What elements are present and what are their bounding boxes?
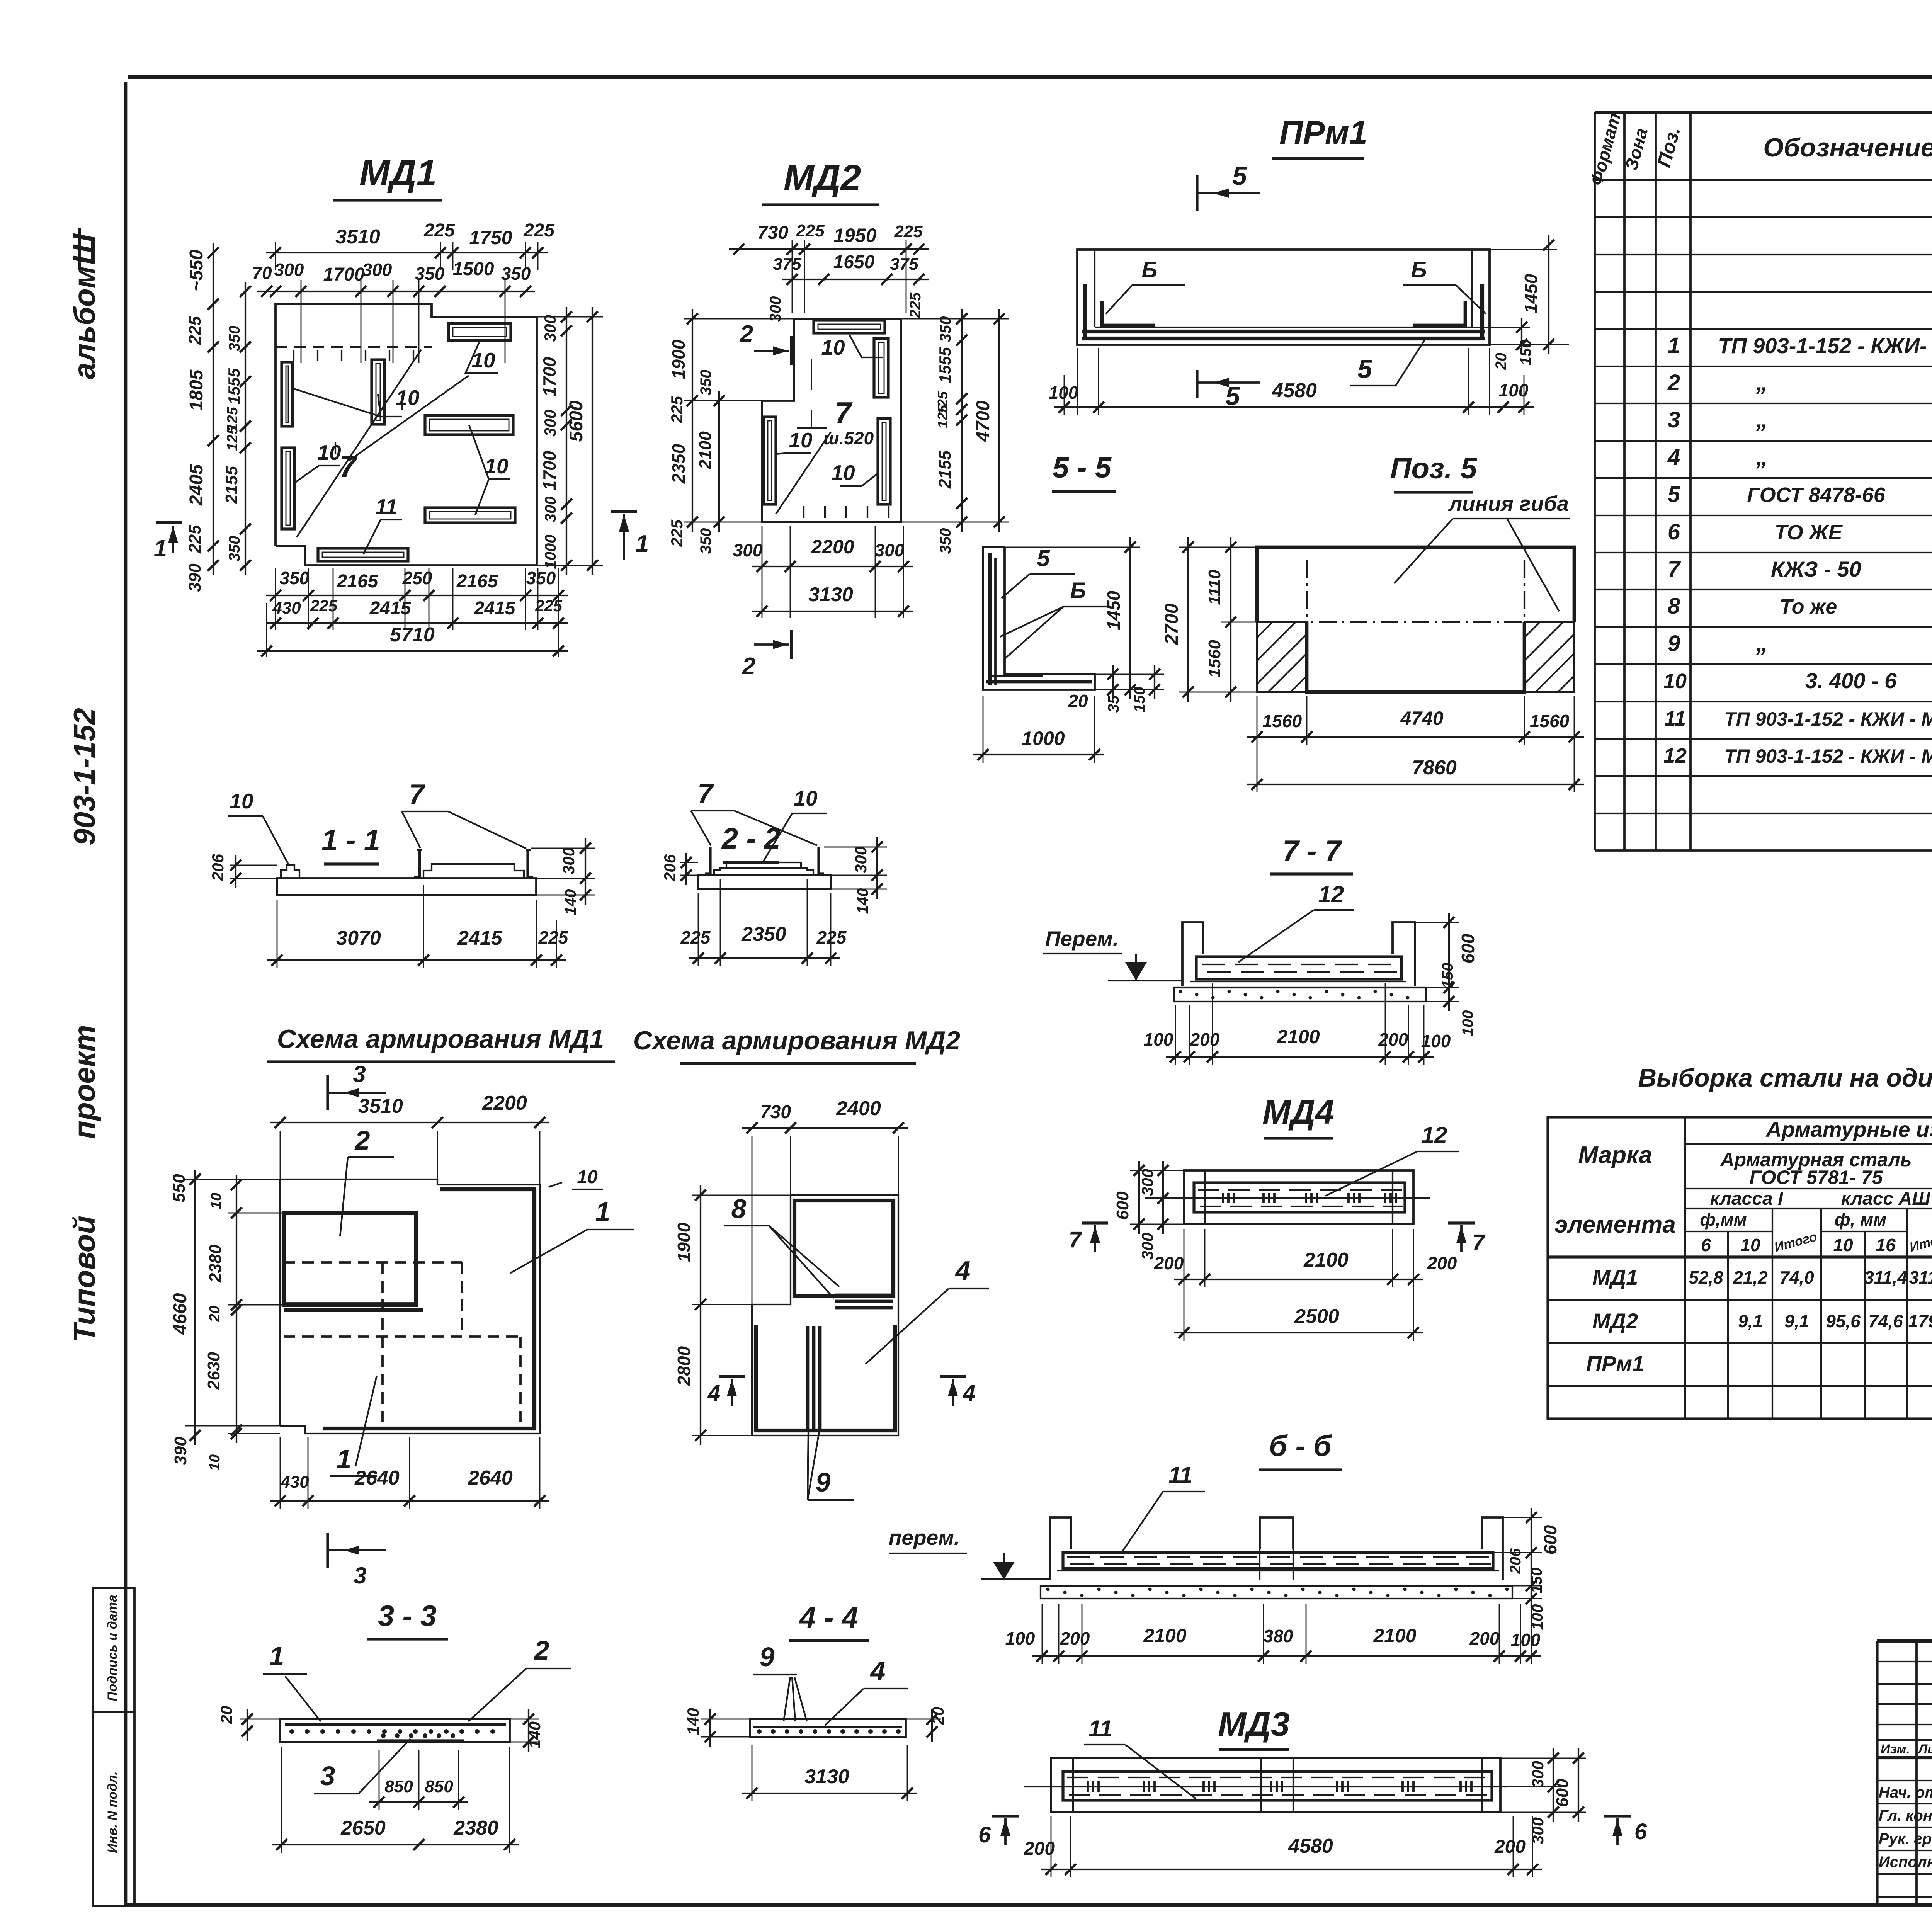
view МД4 bottom dims 200/2100/200 xyxy=(1174,1279,1423,1280)
svg-text:350: 350 xyxy=(937,316,954,342)
scheme МД1 section mark 3 top xyxy=(326,1075,329,1110)
scheme МД1 dashed lines xyxy=(284,1261,462,1264)
svg-text:3510: 3510 xyxy=(335,226,380,248)
svg-text:52,8: 52,8 xyxy=(1689,1267,1723,1287)
svg-text:„: „ xyxy=(1756,630,1768,656)
svg-text:Итого: Итого xyxy=(1908,1229,1932,1255)
svg-text:1: 1 xyxy=(269,1641,284,1671)
view 7-7 bottom dims 100/200/2100/200/100 xyxy=(1166,1056,1434,1058)
svg-text:4740: 4740 xyxy=(1400,707,1443,729)
svg-text:8: 8 xyxy=(731,1194,747,1224)
view 1-1 left embed block xyxy=(281,865,299,878)
svg-text:2640: 2640 xyxy=(354,1467,400,1489)
svg-text:2165: 2165 xyxy=(337,571,379,592)
view МД2 leader label 10 right xyxy=(840,473,878,486)
svg-text:5: 5 xyxy=(1668,482,1680,507)
view МД4 outline xyxy=(1184,1170,1413,1224)
svg-text:ф,мм: ф,мм xyxy=(1700,1209,1747,1230)
svg-text:Обозначение: Обозначение xyxy=(1763,133,1932,162)
view 3-3 dims 850 850 xyxy=(369,1801,468,1803)
svg-text:1555: 1555 xyxy=(936,347,954,383)
svg-text:5: 5 xyxy=(1037,545,1050,571)
svg-text:Б: Б xyxy=(1411,257,1427,282)
svg-text:350: 350 xyxy=(226,536,243,562)
svg-text:3: 3 xyxy=(354,1563,366,1588)
svg-text:Поз. 5: Поз. 5 xyxy=(1390,452,1478,485)
view 5-5 right dimension 1450 xyxy=(1129,537,1131,699)
svg-text:7860: 7860 xyxy=(1412,757,1457,779)
svg-text:4: 4 xyxy=(955,1255,971,1286)
view МД1 leader label 10 right pair xyxy=(469,425,510,479)
view МД1 left dimension column outer xyxy=(213,243,214,575)
svg-text:225: 225 xyxy=(538,927,569,947)
scheme МД2 rebar 8 triple horizontal xyxy=(835,1294,893,1297)
svg-text:3130: 3130 xyxy=(804,1765,849,1788)
scheme МД2 left dims 1900/2800 xyxy=(700,1185,701,1445)
svg-text:10: 10 xyxy=(821,335,845,359)
svg-text:7: 7 xyxy=(697,778,714,809)
svg-text:850: 850 xyxy=(425,1777,453,1796)
view 7-7 left wall xyxy=(1182,922,1203,986)
svg-text:6: 6 xyxy=(978,1822,991,1847)
view МД1 outline xyxy=(276,304,537,565)
view Поз.5 left dimensions 1110/1560 xyxy=(1230,537,1231,702)
svg-text:350: 350 xyxy=(697,370,714,396)
svg-text:2100: 2100 xyxy=(1373,1625,1416,1646)
svg-text:Итого: Итого xyxy=(1773,1229,1819,1255)
svg-text:ПРм1: ПРм1 xyxy=(1586,1351,1644,1376)
view МД3 beam center line and rebar ticks xyxy=(1024,1786,1507,1787)
svg-text:5600: 5600 xyxy=(566,400,587,442)
view МД1 leader label 7 diagonals xyxy=(297,350,421,537)
view 7-7 steel beam 12 xyxy=(1196,957,1401,979)
svg-text:10: 10 xyxy=(207,1454,223,1471)
view 6-6 bottom dims 100/200/2100/380/2100/200/100 xyxy=(1032,1655,1541,1657)
svg-text:300: 300 xyxy=(542,497,559,522)
svg-text:350: 350 xyxy=(526,568,556,588)
svg-text:10: 10 xyxy=(471,348,495,372)
scheme МД2 outline xyxy=(752,1195,898,1435)
svg-text:225: 225 xyxy=(680,927,711,947)
svg-text:7: 7 xyxy=(835,396,853,430)
svg-text:б - б: б - б xyxy=(1269,1430,1332,1463)
svg-text:140: 140 xyxy=(562,889,579,915)
view ПРм1 section mark 5 top xyxy=(1196,175,1198,211)
view МД2 leader label 10 top xyxy=(849,335,883,357)
svg-text:Изм.: Изм. xyxy=(1881,1742,1910,1757)
svg-text:Инв. N подл.: Инв. N подл. xyxy=(105,1771,120,1853)
view МД1 top dimension row 3510/225/1750/225 xyxy=(266,252,548,253)
scheme МД1 section mark 3 bottom xyxy=(326,1533,329,1568)
svg-text:Гл. констр: Гл. констр xyxy=(1879,1807,1932,1824)
scheme МД1 left dims inner xyxy=(236,1175,237,1443)
svg-text:альбом: альбом xyxy=(67,266,101,379)
svg-text:Ш: Ш xyxy=(66,233,102,265)
svg-text:2350: 2350 xyxy=(741,923,786,946)
view МД2 outline xyxy=(762,319,901,522)
view МД2 bottom dimension 3130 xyxy=(752,611,913,612)
svg-text:7: 7 xyxy=(1668,556,1681,582)
view 7-7 right dims 600/150/100 xyxy=(1448,913,1450,1011)
svg-text:Типовой: Типовой xyxy=(67,1216,101,1342)
svg-text:300: 300 xyxy=(541,315,559,342)
svg-text:20: 20 xyxy=(207,1306,223,1322)
svg-text:Формат: Формат xyxy=(1586,111,1625,187)
svg-text:Подпись и дата: Подпись и дата xyxy=(105,1595,120,1701)
svg-text:Б: Б xyxy=(1070,578,1086,603)
svg-text:9: 9 xyxy=(760,1642,775,1672)
svg-text:1700: 1700 xyxy=(323,264,365,285)
view МД4 left dims 300/600/300 xyxy=(1162,1161,1164,1234)
svg-text:10: 10 xyxy=(230,789,253,813)
view МД4 section mark 7 left xyxy=(1082,1221,1108,1224)
svg-text:225: 225 xyxy=(796,221,825,240)
view МД1 leader label 11 xyxy=(363,520,402,554)
svg-text:4: 4 xyxy=(870,1656,886,1686)
view 7-7 right wall xyxy=(1393,922,1415,986)
view 3-3 top rebar with dots xyxy=(285,1723,506,1726)
svg-text:100: 100 xyxy=(1005,1628,1035,1648)
svg-text:74,0: 74,0 xyxy=(1779,1267,1814,1287)
svg-text:1: 1 xyxy=(337,1444,352,1474)
svg-text:МД2: МД2 xyxy=(1592,1309,1638,1333)
svg-text:ТП 903-1-152 - КЖИ - МС4: ТП 903-1-152 - КЖИ - МС4 xyxy=(1724,708,1932,730)
view Поз.5 hatched corner left xyxy=(1257,622,1307,692)
svg-text:10: 10 xyxy=(208,1193,224,1209)
svg-text:1110: 1110 xyxy=(1205,570,1224,605)
view МД2 right dimension column inner xyxy=(961,309,963,532)
svg-text:7: 7 xyxy=(1472,1230,1486,1255)
view МД2 top dimension row 730/225/1950/225 xyxy=(729,248,929,250)
svg-text:1: 1 xyxy=(154,535,167,562)
svg-text:1900: 1900 xyxy=(668,339,689,379)
svg-text:100: 100 xyxy=(1459,1010,1476,1036)
svg-text:1: 1 xyxy=(636,531,649,557)
scheme МД1 left dims outer xyxy=(194,1170,196,1445)
view МД1 leader label 10 top-right xyxy=(466,342,498,373)
svg-text:20: 20 xyxy=(217,1706,235,1725)
svg-text:4580: 4580 xyxy=(1272,379,1317,402)
svg-text:Выборка стали на один элемен: Выборка стали на один элемент, кг. xyxy=(1638,1063,1932,1092)
view МД2 embed slot top xyxy=(814,320,885,333)
svg-text:1 - 1: 1 - 1 xyxy=(321,824,380,857)
svg-text:3: 3 xyxy=(353,1061,366,1087)
svg-text:12: 12 xyxy=(1663,744,1687,767)
svg-text:311,4: 311,4 xyxy=(1864,1267,1907,1287)
svg-text:2415: 2415 xyxy=(474,598,516,619)
svg-text:2: 2 xyxy=(1667,370,1680,395)
svg-text:2: 2 xyxy=(354,1125,370,1155)
view 6-6 middle wall xyxy=(1260,1517,1293,1549)
view 3-3 dims 2650 2380 xyxy=(272,1844,519,1845)
svg-text:20: 20 xyxy=(1493,353,1510,371)
svg-text:Перем.: Перем. xyxy=(1045,927,1119,951)
view МД3 section mark 6 right xyxy=(1604,1815,1631,1817)
svg-text:550: 550 xyxy=(170,1174,189,1202)
svg-text:225: 225 xyxy=(185,316,204,345)
view МД1 right dimension column 5600 xyxy=(592,307,593,575)
svg-text:100: 100 xyxy=(1511,1630,1541,1650)
svg-text:МД1: МД1 xyxy=(359,153,437,194)
svg-text:3510: 3510 xyxy=(358,1095,403,1117)
svg-text:250: 250 xyxy=(402,568,432,588)
view 2-2 bottom dims 225/2350/225 xyxy=(689,957,840,959)
view 1-1 right dims 300/140 xyxy=(585,838,586,905)
svg-text:2: 2 xyxy=(534,1635,549,1665)
svg-text:730: 730 xyxy=(757,223,788,243)
svg-text:150: 150 xyxy=(1131,687,1148,713)
view 6-6 right wall xyxy=(1482,1517,1503,1580)
svg-text:200: 200 xyxy=(1154,1253,1184,1273)
svg-text:150: 150 xyxy=(1439,963,1456,989)
view 6-6 steel beam 11 xyxy=(1063,1553,1493,1568)
view Поз.5 plate outline xyxy=(1257,547,1574,622)
svg-text:100: 100 xyxy=(1049,383,1078,403)
svg-text:850: 850 xyxy=(384,1777,413,1796)
svg-text:3. 400 - 6: 3. 400 - 6 xyxy=(1805,668,1897,693)
view МД1 embed slot 10 right-bottom xyxy=(425,508,515,523)
view МД1 embed slot 10 mid-top xyxy=(372,360,384,424)
svg-text:11: 11 xyxy=(1088,1716,1112,1742)
view 6-6 concrete pad xyxy=(1041,1586,1512,1599)
scheme МД2 section mark 4 left xyxy=(719,1375,745,1378)
svg-text:4: 4 xyxy=(963,1381,975,1406)
svg-text:ТП 903-1-152 - КЖИ- С5: ТП 903-1-152 - КЖИ- С5 xyxy=(1718,333,1932,358)
svg-text:9: 9 xyxy=(1668,631,1680,656)
svg-text:2200: 2200 xyxy=(482,1092,527,1114)
view МД1 section mark 1 left xyxy=(156,521,182,524)
svg-text:Арматурные изделия: Арматурные изделия xyxy=(1765,1117,1932,1141)
svg-text:1900: 1900 xyxy=(674,1222,694,1262)
view МД3 right dims 300/600/300 xyxy=(1553,1748,1554,1822)
svg-text:350: 350 xyxy=(937,528,954,554)
svg-text:300: 300 xyxy=(560,847,578,874)
svg-text:ТП 903-1-152 - КЖИ - МС5: ТП 903-1-152 - КЖИ - МС5 xyxy=(1724,745,1932,767)
svg-text:10: 10 xyxy=(1740,1235,1760,1255)
svg-text:140: 140 xyxy=(684,1708,702,1735)
view МД2 embed slot left xyxy=(764,417,776,504)
svg-text:5710: 5710 xyxy=(390,624,435,646)
svg-text:200: 200 xyxy=(1024,1838,1055,1859)
view МД3 bottom dims 200/4580/200 xyxy=(1041,1869,1542,1870)
view 3-3 lower mesh 3 with dots xyxy=(377,1739,464,1742)
svg-text:5: 5 xyxy=(1357,354,1372,384)
svg-text:2100: 2100 xyxy=(1276,1026,1320,1048)
svg-text:Марка: Марка xyxy=(1578,1142,1652,1168)
svg-text:11: 11 xyxy=(1168,1462,1192,1488)
svg-text:125: 125 xyxy=(935,405,951,428)
scheme МД2 top dims 730/2400 xyxy=(742,1127,908,1129)
view МД2 embed slot right-lower xyxy=(878,418,890,504)
title block left grid xyxy=(1915,1641,1918,1905)
svg-text:10: 10 xyxy=(577,1167,598,1187)
svg-text:10: 10 xyxy=(317,440,341,464)
view 5-5 angle outline xyxy=(983,547,1095,690)
svg-text:74,6: 74,6 xyxy=(1868,1311,1903,1331)
svg-text:1000: 1000 xyxy=(542,535,559,569)
view 5-5 rebar lines xyxy=(988,553,992,685)
view МД1 embed slot 10 right-top xyxy=(449,323,511,340)
svg-text:225: 225 xyxy=(668,519,686,547)
svg-text:140: 140 xyxy=(854,888,871,914)
svg-text:2165: 2165 xyxy=(456,571,498,592)
view 5-5 bottom dimension 1000 xyxy=(973,754,1104,755)
svg-text:1560: 1560 xyxy=(1205,640,1224,678)
svg-text:2155: 2155 xyxy=(222,466,241,504)
view 2-2 raised plate xyxy=(714,868,813,875)
view Поз.5 bend lines dash-dot xyxy=(1257,621,1574,623)
view МД2 leader label 10 left xyxy=(776,453,811,454)
svg-text:3070: 3070 xyxy=(336,927,381,949)
svg-text:2400: 2400 xyxy=(836,1097,881,1120)
view Поз.5 bottom dimensions 1560/4740/1560 xyxy=(1247,736,1584,738)
svg-text:ГОСТ 8478-66: ГОСТ 8478-66 xyxy=(1747,483,1886,507)
scheme МД2 mesh thick bottom outline xyxy=(756,1325,895,1430)
svg-text:225: 225 xyxy=(523,220,555,241)
svg-text:1560: 1560 xyxy=(1530,711,1570,731)
view 1-1 raised plate xyxy=(423,864,524,878)
view МД1 section mark 1 right xyxy=(611,510,637,513)
svg-text:100: 100 xyxy=(1421,1031,1451,1051)
svg-text:903-1-152: 903-1-152 xyxy=(67,708,101,845)
svg-text:То же: То же xyxy=(1780,595,1837,618)
view МД2 section mark 2 top xyxy=(790,336,793,365)
svg-text:179,3: 179,3 xyxy=(1908,1311,1932,1331)
view 5-5 dims 20/35/150 xyxy=(1112,665,1114,699)
svg-text:МД2: МД2 xyxy=(784,157,861,198)
svg-text:150: 150 xyxy=(1517,340,1534,366)
svg-text:350: 350 xyxy=(226,326,243,352)
margin box Инв N подл / Подпись и дата xyxy=(93,1588,134,1906)
svg-text:9,1: 9,1 xyxy=(1738,1311,1763,1331)
scheme МД1 mesh C2 thick rect xyxy=(284,1213,416,1305)
svg-text:2800: 2800 xyxy=(674,1346,694,1386)
svg-text:300: 300 xyxy=(1529,1817,1547,1844)
svg-text:4 - 4: 4 - 4 xyxy=(799,1601,858,1634)
svg-text:1950: 1950 xyxy=(833,224,876,246)
view МД1 bottom dimension 5710 xyxy=(257,650,568,652)
svg-text:1700: 1700 xyxy=(539,451,560,490)
svg-text:КЖЗ - 50: КЖЗ - 50 xyxy=(1771,557,1861,581)
svg-text:350: 350 xyxy=(697,528,714,554)
svg-text:6: 6 xyxy=(1668,519,1680,544)
svg-text:Б: Б xyxy=(1141,257,1157,282)
svg-text:МД4: МД4 xyxy=(1262,1093,1334,1131)
scheme МД1 top dims 3510/2200 xyxy=(270,1122,549,1123)
svg-text:206: 206 xyxy=(209,854,227,881)
svg-text:2640: 2640 xyxy=(468,1467,513,1489)
svg-text:1450: 1450 xyxy=(1104,590,1124,630)
view МД1 leader label 10 left pair xyxy=(293,388,402,417)
svg-text:225: 225 xyxy=(907,292,924,318)
svg-text:2200: 2200 xyxy=(811,536,854,558)
svg-text:350: 350 xyxy=(280,568,310,588)
svg-text:4: 4 xyxy=(1667,445,1680,470)
svg-text:600: 600 xyxy=(1458,934,1478,963)
svg-text:1: 1 xyxy=(595,1197,611,1227)
svg-text:390: 390 xyxy=(171,1437,190,1465)
svg-text:7 - 7: 7 - 7 xyxy=(1282,835,1343,867)
svg-text:430: 430 xyxy=(280,1473,309,1492)
view ПРм1 right dimension column xyxy=(1548,235,1549,354)
view Поз.5 left dimension 2700 xyxy=(1187,537,1189,702)
view 1-1 slab outline xyxy=(277,878,536,895)
svg-text:375: 375 xyxy=(773,255,801,274)
svg-text:430: 430 xyxy=(272,599,301,617)
svg-text:206: 206 xyxy=(661,854,679,882)
svg-text:11: 11 xyxy=(375,495,397,519)
svg-text:2650: 2650 xyxy=(340,1817,386,1839)
svg-text:10: 10 xyxy=(485,454,509,478)
svg-text:300: 300 xyxy=(362,260,392,280)
svg-text:300: 300 xyxy=(274,260,304,280)
view МД4 beam 12 xyxy=(1194,1183,1405,1212)
svg-text:600: 600 xyxy=(1540,1525,1560,1554)
svg-text:4660: 4660 xyxy=(170,1293,190,1335)
svg-text:200: 200 xyxy=(1190,1029,1220,1049)
svg-text:2380: 2380 xyxy=(206,1245,225,1283)
view МД4 section mark 7 right xyxy=(1448,1221,1475,1224)
svg-text:6: 6 xyxy=(1701,1235,1711,1255)
view МД2 top dimension row 375/1650/375 xyxy=(782,279,929,280)
svg-text:95,6: 95,6 xyxy=(1826,1311,1861,1331)
view 6-6 left wall xyxy=(1050,1517,1071,1580)
svg-text:5: 5 xyxy=(1225,381,1240,411)
view 6-6 right dims 600/206/150/100 xyxy=(1531,1508,1532,1608)
svg-text:Нач. отд.: Нач. отд. xyxy=(1879,1784,1932,1801)
svg-text:4580: 4580 xyxy=(1288,1835,1333,1857)
view МД1 bottom dimension row 350/2165/250/2165/350 xyxy=(266,595,568,596)
svg-text:2: 2 xyxy=(740,321,753,347)
scheme МД2 mesh thick rect top xyxy=(794,1201,893,1296)
view ПРм1 channel outline xyxy=(1077,250,1490,345)
svg-text:70: 70 xyxy=(252,263,272,283)
scheme МД1 mesh C1 thick outline xyxy=(323,1189,534,1429)
vyborka table grid xyxy=(1548,1117,1932,1419)
scheme МД2 rebar 9 triple vertical xyxy=(806,1326,810,1430)
view 1-1 anchor pins xyxy=(414,850,420,877)
view МД1 embed slot 10 right-mid xyxy=(425,415,513,435)
svg-text:1000: 1000 xyxy=(1022,728,1065,749)
svg-text:„: „ xyxy=(1756,369,1768,395)
view МД2 dashed ticks xyxy=(803,506,804,518)
svg-text:линия гиба: линия гиба xyxy=(1448,492,1569,515)
view 4-4 slab outline xyxy=(750,1719,906,1737)
svg-text:10: 10 xyxy=(396,386,420,410)
svg-text:200: 200 xyxy=(1469,1628,1500,1648)
svg-text:Исполн.: Исполн. xyxy=(1879,1854,1932,1871)
view ПРм1 rebar mesh bottom xyxy=(1082,330,1485,333)
view МД3 outline xyxy=(1051,1758,1500,1812)
svg-text:МД3: МД3 xyxy=(1218,1705,1290,1743)
svg-text:ф, мм: ф, мм xyxy=(1835,1209,1886,1230)
title block outer xyxy=(1877,1639,1932,1643)
view МД1 embed slot 10 left-bottom xyxy=(282,448,294,529)
svg-text:ГОСТ 5781- 75: ГОСТ 5781- 75 xyxy=(1750,1167,1883,1188)
svg-text:200: 200 xyxy=(1060,1628,1090,1648)
svg-text:2700: 2700 xyxy=(1162,603,1182,645)
view 2-2 anchor pins xyxy=(705,847,710,874)
svg-text:380: 380 xyxy=(1264,1626,1293,1646)
svg-text:600: 600 xyxy=(1113,1191,1132,1220)
svg-text:225: 225 xyxy=(185,525,204,554)
svg-text:Рук. гр.: Рук. гр. xyxy=(1879,1830,1932,1847)
svg-text:2350: 2350 xyxy=(668,444,689,484)
svg-text:1500: 1500 xyxy=(453,259,494,279)
scheme МД1 bottom dims 430/2640/2640 xyxy=(270,1500,549,1502)
view 7-7 concrete pad xyxy=(1174,988,1426,1002)
svg-text:2415: 2415 xyxy=(457,927,503,949)
